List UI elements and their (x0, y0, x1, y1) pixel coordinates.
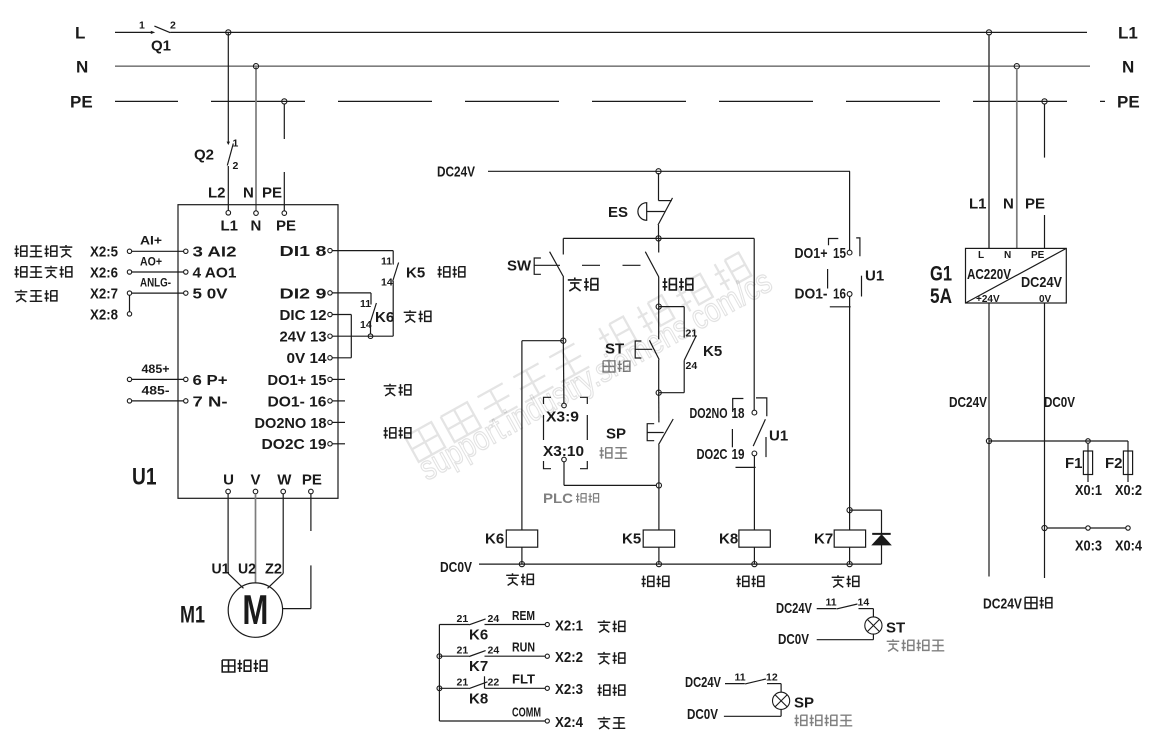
svg-text:PLC: PLC (543, 490, 573, 506)
svg-text:X0:2: X0:2 (1115, 482, 1142, 499)
svg-text:W: W (277, 471, 292, 488)
svg-text:22: 22 (488, 677, 500, 689)
svg-text:X2:2: X2:2 (555, 649, 583, 666)
svg-text:11: 11 (826, 597, 837, 609)
svg-text:SP: SP (794, 695, 814, 712)
svg-text:5 0V: 5 0V (193, 286, 228, 303)
svg-text:ST: ST (886, 619, 905, 636)
svg-text:485-: 485- (142, 384, 170, 398)
svg-text:Q2: Q2 (194, 146, 214, 163)
svg-text:11: 11 (735, 672, 746, 684)
svg-text:DC24V: DC24V (983, 595, 1022, 612)
svg-text:X0:1: X0:1 (1075, 482, 1102, 499)
svg-text:N: N (251, 217, 262, 234)
svg-text:24: 24 (488, 613, 500, 625)
svg-text:K8: K8 (469, 690, 488, 707)
svg-text:DI1 8: DI1 8 (280, 243, 327, 260)
svg-text:18: 18 (732, 405, 745, 422)
svg-text:U1: U1 (769, 427, 788, 444)
svg-text:X2:6: X2:6 (90, 264, 118, 281)
svg-text:G1: G1 (930, 263, 952, 286)
svg-text:L1: L1 (221, 217, 239, 234)
svg-text:K8: K8 (719, 530, 738, 547)
svg-text:X2:8: X2:8 (90, 306, 118, 323)
svg-text:M: M (242, 586, 268, 633)
svg-text:K6: K6 (469, 626, 488, 643)
svg-text:ES: ES (608, 204, 628, 221)
svg-text:L: L (978, 250, 984, 261)
svg-text:X2:3: X2:3 (555, 681, 583, 698)
svg-text:DC24V: DC24V (1021, 274, 1062, 291)
svg-text:24: 24 (488, 645, 500, 657)
svg-text:PE: PE (70, 93, 93, 112)
svg-text:SW: SW (507, 258, 532, 275)
svg-text:DO1- 16: DO1- 16 (268, 393, 327, 410)
svg-text:PE: PE (1025, 195, 1045, 212)
svg-text:21: 21 (457, 613, 469, 625)
svg-text:21: 21 (457, 645, 469, 657)
svg-text:X0:3: X0:3 (1075, 537, 1102, 554)
svg-text:SP: SP (606, 425, 626, 442)
svg-text:F1: F1 (1065, 455, 1083, 472)
svg-text:21: 21 (457, 677, 469, 689)
svg-text:DO2NO: DO2NO (690, 405, 728, 422)
svg-text:U: U (223, 471, 234, 488)
svg-text:Q1: Q1 (151, 37, 171, 54)
svg-text:AO+: AO+ (140, 254, 162, 268)
svg-text:K5: K5 (406, 264, 425, 281)
svg-text:DO2C 19: DO2C 19 (262, 436, 327, 453)
svg-text:1: 1 (233, 138, 239, 150)
svg-text:DI2 9: DI2 9 (280, 285, 327, 302)
svg-text:PE: PE (276, 217, 296, 234)
svg-text:5A: 5A (930, 285, 952, 308)
svg-text:DC24V: DC24V (685, 674, 721, 691)
svg-text:L2: L2 (208, 184, 226, 201)
svg-text:K5: K5 (622, 530, 641, 547)
svg-text:AC220V: AC220V (967, 266, 1011, 283)
svg-text:PE: PE (1031, 250, 1045, 261)
svg-text:3 AI2: 3 AI2 (193, 244, 237, 261)
svg-text:0V: 0V (1039, 294, 1052, 305)
svg-text:15: 15 (833, 245, 846, 262)
svg-text:2: 2 (170, 19, 176, 31)
svg-text:REM: REM (512, 608, 535, 623)
svg-text:6 P+: 6 P+ (193, 372, 228, 389)
svg-text:11: 11 (381, 256, 392, 268)
svg-text:4 AO1: 4 AO1 (193, 264, 237, 281)
svg-text:+24V: +24V (976, 294, 1000, 305)
svg-text:L: L (75, 24, 85, 43)
svg-text:Z2: Z2 (265, 561, 282, 578)
svg-text:0V 14: 0V 14 (287, 350, 328, 367)
svg-text:U1: U1 (132, 464, 157, 491)
svg-text:DC24V: DC24V (437, 164, 475, 181)
svg-text:14: 14 (360, 319, 372, 331)
svg-text:7 N-: 7 N- (193, 393, 228, 410)
svg-text:K7: K7 (814, 530, 833, 547)
svg-text:K6: K6 (375, 309, 394, 326)
svg-text:AI+: AI+ (140, 234, 162, 248)
svg-text:K6: K6 (485, 530, 504, 547)
svg-text:24V 13: 24V 13 (280, 329, 327, 346)
svg-text:485+: 485+ (142, 362, 170, 376)
svg-text:X3:10: X3:10 (543, 443, 584, 460)
svg-text:19: 19 (732, 446, 745, 463)
svg-text:N: N (243, 184, 254, 201)
svg-text:DO1-: DO1- (795, 286, 828, 303)
svg-text:N: N (1122, 57, 1134, 76)
svg-text:11: 11 (360, 298, 371, 310)
svg-text:L1: L1 (969, 195, 987, 212)
svg-text:DC0V: DC0V (778, 631, 809, 648)
svg-text:1: 1 (139, 19, 145, 31)
svg-text:DC0V: DC0V (1044, 394, 1075, 411)
svg-text:X2:4: X2:4 (555, 714, 584, 731)
svg-text:N: N (76, 57, 88, 76)
svg-text:N: N (1003, 195, 1014, 212)
svg-text:DIC 12: DIC 12 (280, 307, 327, 324)
svg-text:M1: M1 (180, 602, 205, 629)
svg-text:DC24V: DC24V (776, 600, 812, 617)
svg-text:U2: U2 (238, 561, 256, 578)
svg-text:DO1+: DO1+ (795, 245, 828, 262)
svg-text:PE: PE (262, 184, 282, 201)
svg-text:X2:1: X2:1 (555, 617, 583, 634)
svg-text:U1: U1 (212, 561, 230, 578)
svg-text:X2:5: X2:5 (90, 244, 118, 261)
svg-text:K7: K7 (469, 658, 488, 675)
svg-text:DO2C: DO2C (697, 446, 728, 463)
svg-text:14: 14 (858, 597, 870, 609)
svg-text:RUN: RUN (512, 640, 535, 655)
svg-text:DC24V: DC24V (949, 394, 987, 411)
svg-text:U1: U1 (865, 267, 884, 284)
svg-text:2: 2 (233, 160, 239, 172)
svg-text:X2:7: X2:7 (90, 286, 118, 303)
svg-text:ANLG-: ANLG- (140, 275, 171, 289)
svg-text:DC0V: DC0V (687, 706, 718, 723)
svg-text:FLT: FLT (512, 672, 535, 687)
svg-text:14: 14 (381, 277, 393, 289)
svg-text:PE: PE (302, 471, 322, 488)
svg-text:K5: K5 (703, 343, 722, 360)
svg-text:V: V (251, 471, 261, 488)
svg-text:N: N (1004, 250, 1011, 261)
svg-text:COMM: COMM (512, 704, 541, 719)
svg-text:L1: L1 (1118, 24, 1138, 43)
svg-text:PE: PE (1117, 93, 1140, 112)
svg-text:DC0V: DC0V (440, 559, 472, 576)
svg-text:24: 24 (686, 360, 698, 372)
svg-text:F2: F2 (1105, 455, 1123, 472)
svg-text:12: 12 (766, 672, 778, 684)
svg-text:X0:4: X0:4 (1115, 537, 1143, 554)
svg-text:DO2NO 18: DO2NO 18 (255, 415, 327, 432)
svg-text:16: 16 (833, 286, 846, 303)
svg-text:DO1+ 15: DO1+ 15 (268, 372, 327, 389)
